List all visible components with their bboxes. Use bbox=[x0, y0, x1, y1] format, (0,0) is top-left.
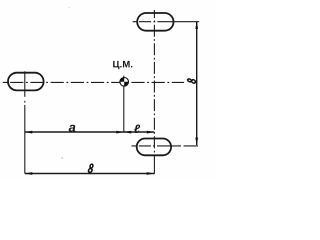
CM symbol bbox=[120, 78, 129, 87]
arrow left of dimension a bbox=[25, 131, 33, 134]
label b bottom (handwritten v-eight shape) bbox=[88, 164, 93, 172]
wheel top-right bbox=[137, 13, 173, 31]
centerline vertical through right wheels bbox=[153, 10, 155, 156]
extension line vertical from CM bbox=[123, 76, 125, 133]
arrow right of dimension l bbox=[147, 131, 155, 134]
centerline horizontal through top-right wheel bbox=[133, 21, 200, 23]
faint scan speck near bottom-left bbox=[61, 157, 63, 159]
label a bbox=[69, 125, 76, 132]
wheel bottom-right bbox=[137, 139, 171, 156]
arrow top of dimension b right bbox=[195, 21, 198, 29]
label b right (rotated) bbox=[188, 79, 196, 84]
dimension line a and l bbox=[25, 131, 155, 133]
label l bbox=[134, 125, 140, 133]
centerline horizontal left lead-in dash bbox=[3, 81, 6, 83]
arrow left of dimension b bottom bbox=[25, 172, 33, 175]
centerline horizontal through bottom-right wheel bbox=[132, 145, 199, 147]
dimension line b right vertical bbox=[196, 21, 198, 145]
centerline vertical through left wheel down to dimensions bbox=[24, 71, 26, 97]
arrow bottom of dimension b right bbox=[195, 138, 198, 146]
wheel left (front) bbox=[8, 73, 44, 91]
centerline horizontal through left wheel and CM bbox=[3, 81, 184, 83]
arrow right of dimension a bbox=[116, 131, 124, 134]
dimension line b bottom bbox=[25, 173, 154, 175]
label CM (Ts.M.) bbox=[113, 61, 132, 69]
arrow right of dimension b bottom bbox=[147, 172, 155, 175]
faint scan speck near top bbox=[69, 7, 70, 8]
arrow left of dimension l bbox=[124, 131, 132, 134]
